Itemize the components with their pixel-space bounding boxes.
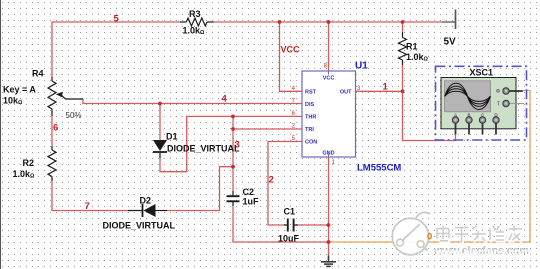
resistor R2 body [48, 150, 56, 177]
wire R2 bottom to D2 (net 7) [52, 181, 128, 211]
oscilloscope waveforms [445, 83, 491, 109]
resistor R1 leads [402, 32, 404, 38]
svg-text:R3: R3 [189, 9, 201, 19]
wire ground net 0 orange to scope T terminal [329, 91, 531, 243]
wire R1 bottom to node [402, 65, 404, 91]
svg-text:B: B [467, 112, 470, 117]
watermark logo [392, 212, 531, 258]
potentiometer R4 wiper line [62, 95, 84, 99]
svg-text:2: 2 [269, 175, 274, 186]
junction gnd-net0 [327, 240, 331, 244]
svg-text:VCC: VCC [281, 45, 301, 55]
svg-text:5V: 5V [444, 37, 457, 48]
diode D1 body [153, 140, 167, 151]
IC U1 LM555CM timer body [302, 71, 356, 157]
diode D2 body [144, 204, 156, 217]
junction net4-D1 [158, 102, 162, 106]
svg-text:7: 7 [85, 201, 90, 212]
svg-text:CON: CON [305, 140, 317, 146]
junction gnd-C1 [327, 223, 331, 227]
wire TRI pin [233, 128, 302, 130]
junction net3-TRI [231, 127, 235, 131]
potentiometer R4 wiper arrow [56, 92, 63, 97]
wire net5 top rail right of R3 [214, 21, 443, 23]
capacitor C2 leads [232, 191, 234, 196]
wire net5 top rail left of R3 [52, 22, 180, 77]
resistor R1 body [399, 38, 407, 61]
wire OUT to R1 node (net 1) [356, 90, 403, 92]
svg-text:RST: RST [305, 89, 317, 95]
svg-text:1: 1 [383, 82, 389, 93]
wire C2 top lead [232, 167, 234, 191]
svg-text:THR: THR [305, 114, 316, 120]
svg-text:50%: 50% [66, 111, 82, 120]
capacitor C1 plates [287, 219, 289, 232]
svg-text:10uF: 10uF [278, 234, 300, 244]
wire D2 to node 3 [167, 167, 233, 211]
wire R1 top lead red [402, 22, 404, 32]
svg-text:1uF: 1uF [243, 197, 260, 207]
potentiometer R4 body [48, 81, 56, 109]
svg-text:Key = A: Key = A [3, 85, 36, 95]
ground [321, 256, 336, 267]
potentiometer R4 leads [51, 77, 53, 81]
svg-text:R4: R4 [32, 69, 44, 79]
oscilloscope terminals A B C D [452, 117, 499, 123]
oscilloscope XSC1 dashed box [436, 66, 527, 140]
oscilloscope screen [445, 81, 491, 112]
wire D1 anode drop [159, 104, 161, 141]
diode D2 leads [128, 210, 143, 212]
wire VCC branch to RST [280, 22, 303, 91]
svg-text:TRI: TRI [305, 127, 314, 133]
svg-text:DIS: DIS [305, 102, 315, 108]
svg-text:DIODE_VIRTUAL: DIODE_VIRTUAL [167, 144, 240, 154]
wire chip pin8 top [328, 22, 330, 71]
resistor R3 leads [180, 21, 186, 23]
svg-text:C2: C2 [243, 187, 255, 197]
svg-text:U1: U1 [355, 61, 368, 72]
svg-text:www.elecfans.com: www.elecfans.com [435, 247, 531, 259]
capacitor C1 leads [284, 224, 288, 226]
svg-text:OUT: OUT [340, 89, 352, 95]
diode D1 cathode lead [159, 153, 161, 158]
oscilloscope body [441, 78, 516, 129]
svg-text:LM555CM: LM555CM [357, 163, 401, 174]
svg-text:D1: D1 [166, 132, 178, 142]
junction rail-VCC [278, 20, 282, 24]
junction net1-OUT-R1 [401, 89, 405, 93]
svg-text:DIODE_VIRTUAL: DIODE_VIRTUAL [103, 221, 176, 231]
capacitor C2 plates [227, 195, 240, 197]
svg-text:D2: D2 [140, 196, 152, 206]
svg-text:A: A [454, 112, 457, 117]
svg-text:T: T [497, 101, 500, 107]
wire chip pin1 gnd column [328, 157, 330, 256]
junction rail-R1 [401, 20, 405, 24]
wire node3 vertical [232, 116, 234, 166]
net number labels [53, 14, 389, 213]
oscilloscope right terminals [503, 88, 509, 94]
svg-text:GND: GND [322, 151, 334, 157]
watermark chinese text [437, 226, 523, 244]
junction rail-pin8 [327, 20, 331, 24]
wire C1 right lead to gnd column [298, 224, 329, 226]
wire node1 to scope channel A [403, 91, 456, 140]
junction net3-C2 [231, 165, 235, 169]
svg-text:6: 6 [53, 123, 58, 134]
svg-text:5: 5 [114, 14, 120, 25]
power supply 5V [442, 10, 456, 30]
wire CON pin to C1 (net 2) [268, 142, 302, 226]
svg-text:0: 0 [427, 232, 432, 243]
wire pot bottom to R2 top (net 6) [51, 116, 53, 146]
resistor R3 body [186, 18, 207, 26]
svg-text:C1: C1 [284, 207, 296, 217]
svg-text:R2: R2 [23, 158, 35, 168]
left window border [0, 0, 2, 269]
wire pot wiper to DIS pin (net 4) [83, 99, 302, 104]
svg-text:XSC1: XSC1 [470, 68, 494, 78]
svg-text:4: 4 [222, 94, 228, 105]
svg-text:VCC: VCC [323, 76, 335, 82]
wire C2 bottom to bottom rail [233, 206, 329, 242]
resistor R2 leads [51, 146, 53, 150]
junction net3-THR [231, 115, 235, 119]
wire D1 cathode to THR (net 3) [160, 116, 302, 171]
svg-text:R1: R1 [406, 42, 418, 52]
oscilloscope terminal leads [456, 91, 523, 135]
